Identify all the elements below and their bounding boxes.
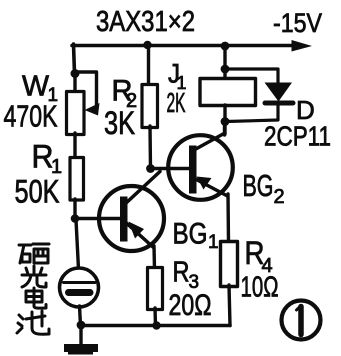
photocell long plate — [64, 281, 96, 284]
transistor BG1 circle — [99, 186, 164, 251]
transistor BG1 emitter lead — [127, 224, 154, 248]
label selenium photocell (drawn glyphs 硒光电池) — [17, 244, 49, 334]
transistor BG2 base bar — [189, 146, 197, 194]
svg-text:2K: 2K — [167, 87, 186, 118]
wire: top supply rail — [72, 44, 296, 48]
svg-text:10Ω: 10Ω — [241, 272, 279, 304]
wire: rail to R2 — [147, 45, 150, 86]
svg-text:3K: 3K — [104, 105, 135, 141]
transistor BG2 emitter lead — [196, 179, 227, 196]
glyph 光 — [22, 266, 46, 287]
wire: junction to W1 body — [73, 76, 76, 93]
wire: node to relay coil — [223, 69, 226, 80]
node: supply rail / relay junction — [221, 42, 230, 51]
svg-text:470K: 470K — [4, 99, 58, 134]
glyph 硒 — [19, 244, 49, 263]
glyph 电 — [26, 288, 46, 308]
svg-text:BG: BG — [243, 168, 274, 203]
wire: rail to relay top node — [223, 46, 226, 70]
svg-text:20Ω: 20Ω — [169, 289, 212, 322]
node: R2 / BG1 collector / BG2 base junction — [146, 164, 155, 173]
transistor BG1 collector lead — [125, 172, 160, 205]
wire: bottom rail — [81, 324, 230, 328]
svg-text:3AX31×2: 3AX31×2 — [96, 6, 195, 38]
node: relay top / diode branch junction — [221, 65, 230, 74]
resistor R4 body — [221, 242, 238, 287]
relay coil J1 box — [200, 79, 256, 106]
wire: junction to BG2 base — [151, 167, 190, 170]
wire: diode bottom branch — [226, 104, 278, 122]
svg-text:BG: BG — [173, 218, 208, 251]
transistor BG2 circle — [168, 135, 233, 200]
diode D body — [265, 83, 293, 102]
node: W1 top junction — [71, 69, 80, 78]
wire: R3 to bottom rail — [153, 308, 157, 326]
transistor BG1 base bar — [120, 197, 128, 242]
wire: BG2 collector up to relay — [223, 121, 226, 135]
resistor R1 body — [70, 158, 84, 201]
wire: left drop from rail to W1 — [74, 44, 75, 74]
ground symbol — [64, 344, 98, 352]
transistor BG2 emitter arrow (PNP) — [197, 177, 212, 190]
node: bottom-left junction — [77, 321, 86, 330]
resistor R2 body — [142, 85, 158, 128]
node: BG1 base junction — [71, 214, 80, 223]
svg-text:R: R — [173, 257, 190, 289]
svg-text:2CP11: 2CP11 — [264, 121, 331, 152]
svg-text:50K: 50K — [15, 174, 60, 210]
potentiometer W1 body — [67, 92, 85, 135]
wire: R2 to collector node — [148, 126, 152, 169]
node: R3 bottom junction — [152, 321, 160, 329]
transistor BG1 emitter arrow (PNP) — [129, 222, 145, 239]
wire: W1 to R1 — [73, 133, 76, 159]
photocell short thick plate — [69, 289, 91, 296]
photocell (selenium cell) circle — [60, 268, 99, 307]
svg-text:1: 1 — [208, 232, 219, 253]
wire: R1 to base node — [73, 199, 76, 220]
diode D cathode bar — [265, 101, 293, 106]
wire: diode top branch — [226, 69, 278, 84]
potentiometer W1 wiper arrowhead — [85, 103, 100, 116]
wire: BG1 emitter to R3 — [152, 246, 156, 269]
node: relay bottom / diode bottom junction — [221, 117, 230, 126]
figure number digit 1 — [298, 307, 304, 335]
figure number circle 1 — [282, 301, 321, 340]
wire: relay bottom to BG2 collector — [223, 105, 226, 134]
transistor BG2 collector lead — [194, 134, 224, 151]
svg-text:-15V: -15V — [273, 8, 322, 38]
wire: base node to BG1 base — [76, 217, 120, 220]
node: rail to R2 junction — [143, 41, 151, 49]
wire: photocell to bottom rail — [80, 306, 81, 326]
supply arrowhead — [292, 40, 313, 52]
potentiometer W1 wiper loop — [77, 72, 97, 107]
resistor R3 body — [148, 268, 163, 310]
svg-text:2: 2 — [274, 186, 285, 208]
glyph 池 — [17, 311, 49, 334]
wire: base node down to photocell — [76, 220, 79, 269]
wire: junction to ground — [79, 325, 82, 345]
wire: R4 to bottom rail — [229, 285, 230, 326]
wire: BG2 emitter down to R4 — [226, 194, 230, 243]
